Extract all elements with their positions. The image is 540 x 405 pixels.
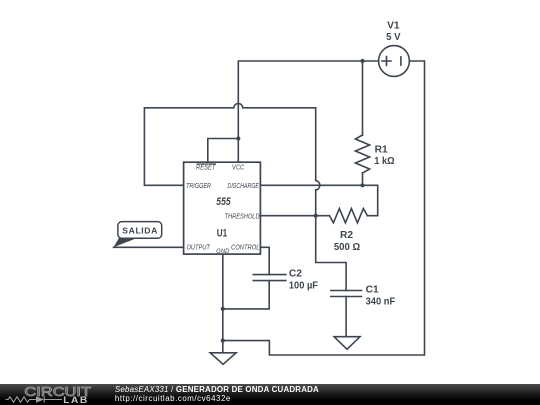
svg-text:RESET: RESET xyxy=(196,164,216,172)
svg-text:1 kΩ: 1 kΩ xyxy=(374,156,395,168)
svg-text:TRIGGER: TRIGGER xyxy=(186,182,211,190)
ground symbol under C1 xyxy=(334,337,360,350)
V1 minus bar xyxy=(400,57,402,65)
node junction dot THRESHOLD/TRIGGER/R2/C1 xyxy=(314,214,318,218)
svg-text:DISCHARGE: DISCHARGE xyxy=(228,182,260,190)
svg-text:V1: V1 xyxy=(387,21,400,32)
svg-text:C1: C1 xyxy=(366,285,379,296)
svg-text:5 V: 5 V xyxy=(386,32,401,43)
wire RESET stub from U1 RESET pin up to VCC vertical xyxy=(208,139,239,163)
logo resistor-diode glyph xyxy=(6,396,63,402)
svg-text:SebasEAX331 / GENERADOR DE OND: SebasEAX331 / GENERADOR DE ONDA CUADRADA xyxy=(115,385,319,394)
wire CONTROL to C2 top plate xyxy=(260,247,269,274)
svg-text:R1: R1 xyxy=(375,145,388,156)
svg-text:GND: GND xyxy=(216,248,230,255)
wire DISCHARGE from U1 right to R1 bottom node xyxy=(260,184,362,186)
svg-text:R2: R2 xyxy=(340,230,353,241)
svg-text:U1: U1 xyxy=(217,228,228,240)
node junction dot RESET/VCC xyxy=(236,136,240,140)
wire C1 bottom plate to its ground xyxy=(345,297,347,337)
capacitor C1 plates xyxy=(331,291,362,297)
node junction dot GND/bottom wire xyxy=(221,339,225,343)
node junction dot R1/R2/DISCHARGE xyxy=(360,183,364,187)
wire U1 GND pin down to ground xyxy=(222,254,224,353)
svg-text:555: 555 xyxy=(216,196,231,208)
svg-text:http://circuitlab.com/cv6432e: http://circuitlab.com/cv6432e xyxy=(115,394,231,403)
resistor R2 zigzag xyxy=(329,209,367,223)
footer bar xyxy=(0,384,540,405)
wire V1 right terminal down the right side and along bottom to ground node xyxy=(223,61,425,355)
svg-text:CONTROL: CONTROL xyxy=(231,244,260,252)
ground symbol under GND wire xyxy=(210,353,236,365)
svg-text:100 µF: 100 µF xyxy=(289,280,318,292)
op-amp U1 555 timer box xyxy=(184,162,261,254)
svg-text:VCC: VCC xyxy=(232,164,245,172)
wire R1 top lead from VCC node xyxy=(362,61,364,135)
wire R2 right lead up to DISCHARGE node xyxy=(363,185,378,215)
V1 plus symbol xyxy=(382,57,391,66)
resistor R1 zigzag xyxy=(355,135,369,173)
node junction dot GND/C2 xyxy=(221,307,225,311)
flag SALIDA output flag xyxy=(114,222,162,248)
svg-text:SALIDA: SALIDA xyxy=(122,226,157,236)
wire C2 bottom plate to GND net xyxy=(223,281,269,309)
wire R1 bottom lead to DISCHARGE node xyxy=(362,173,364,185)
svg-text:340 nF: 340 nF xyxy=(366,296,396,307)
svg-text:C2: C2 xyxy=(289,268,302,279)
wire hop on vertical trigger wire over DISCHARGE wire xyxy=(316,181,320,191)
node junction dot VCC/R1/V1 xyxy=(360,59,364,63)
svg-text:500 Ω: 500 Ω xyxy=(334,242,360,253)
svg-text:LAB: LAB xyxy=(63,395,88,405)
logo diode triangle xyxy=(36,396,44,403)
wire OUTPUT from U1 left to SALIDA flag xyxy=(114,246,184,248)
svg-text:OUTPUT: OUTPUT xyxy=(187,244,211,252)
wire TRIGGER from U1 left, up, across (hop over VCC wire), down to THRESHOLD node xyxy=(144,103,346,290)
voltage source V1 circle xyxy=(379,46,410,77)
svg-text:THRESHOLD: THRESHOLD xyxy=(225,213,260,221)
capacitor C2 plates xyxy=(253,275,285,281)
wire VCC net: U1 VCC pin up and right to V1 plus terminal xyxy=(238,61,378,162)
wire THRESHOLD from U1 right to node xyxy=(260,215,329,217)
